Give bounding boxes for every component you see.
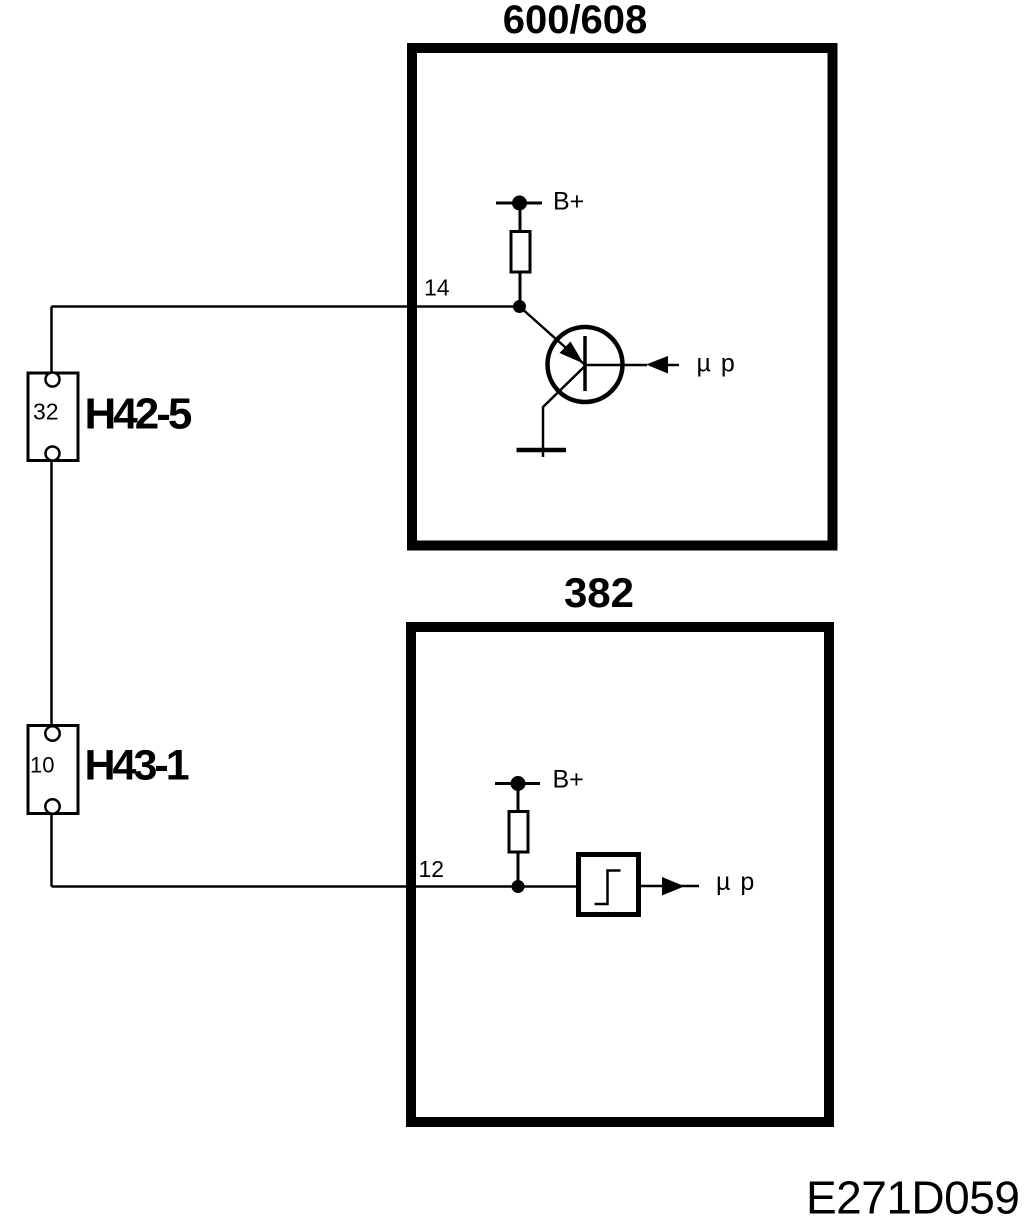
connector H43-1 bottom pin circle: [45, 799, 59, 813]
ground symbol: [517, 450, 567, 457]
svg-text:µ p: µ p: [697, 350, 737, 378]
svg-text:B+: B+: [553, 188, 584, 216]
connector H42-5 bottom pin circle: [46, 447, 60, 461]
connector H43-1 top pin circle: [45, 726, 59, 740]
wire B+ to resistor (bottom module): [517, 784, 520, 812]
transistor Q1 bar: [583, 336, 587, 391]
svg-text:µ p: µ p: [716, 868, 756, 896]
node 14 junction dot: [513, 300, 526, 313]
svg-text:12: 12: [419, 856, 445, 882]
transistor Q1 collector output line: [585, 364, 647, 367]
transistor Q1 base wire with arrow: [520, 307, 585, 365]
module box 600/608: [412, 48, 833, 546]
wire B+ to resistor (top module): [519, 203, 522, 231]
svg-text:600/608: 600/608: [503, 0, 648, 42]
svg-text:H43-1: H43-1: [85, 742, 189, 790]
wire resistor to node 14 (top module): [519, 272, 522, 307]
svg-text:B+: B+: [553, 766, 584, 794]
wire pin 12 horizontal: [52, 885, 579, 888]
wire H42-5 down to H43-1: [50, 460, 53, 725]
svg-text:H42-5: H42-5: [85, 390, 192, 439]
B+ node dot (bottom module): [511, 776, 526, 791]
schmitt trigger box U1: [579, 855, 639, 915]
B+ supply line (bottom module): [495, 782, 540, 785]
svg-text:32: 32: [33, 399, 59, 425]
resistor (top module pull-up): [511, 232, 530, 273]
module box 382: [411, 627, 829, 1122]
schmitt trigger step symbol: [595, 871, 621, 905]
wire after arrow (top module): [668, 364, 679, 367]
resistor (bottom module pull-up): [509, 812, 528, 853]
svg-text:10: 10: [30, 753, 54, 778]
transistor Q1 emitter wire: [543, 366, 585, 450]
connector H43-1 body: [28, 726, 78, 814]
wire pin 14 horizontal: [52, 305, 521, 308]
wire resistor to node 12 (bottom module): [517, 852, 520, 887]
svg-text:382: 382: [564, 569, 634, 616]
transistor Q1 circle: [548, 327, 623, 402]
B+ node dot (top module): [512, 196, 527, 211]
wire H43-1 down to pin 12 line: [50, 813, 53, 887]
B+ supply line (top module): [496, 202, 542, 205]
connector H42-5 top pin circle: [46, 373, 60, 387]
svg-text:14: 14: [424, 275, 450, 301]
output arrow to microprocessor (points right): [662, 877, 685, 896]
wire schmitt to arrow (bottom module): [641, 885, 699, 888]
connector H42-5 body: [28, 373, 78, 461]
output arrow to microprocessor (points left): [646, 356, 668, 374]
svg-text:E271D059: E271D059: [806, 1172, 1019, 1224]
node 12 junction dot: [512, 880, 525, 893]
wire H42-5 up to pin 14 line: [50, 307, 53, 374]
